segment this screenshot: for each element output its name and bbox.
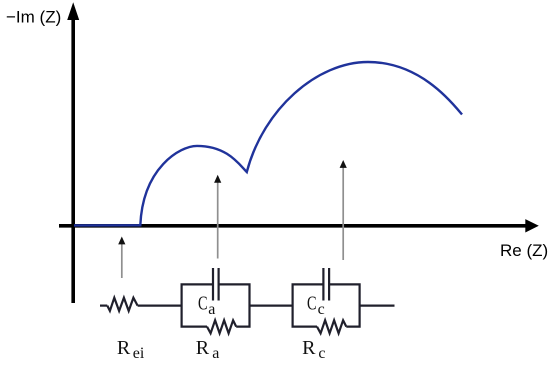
wire out right <box>360 305 395 307</box>
wire lead-in left <box>100 305 107 307</box>
capacitor C_a plates <box>212 268 214 301</box>
Nyquist curve (blue impedance trace) <box>74 62 462 225</box>
capacitor C_c plates <box>322 268 324 301</box>
parallel RC box 1 frame <box>182 284 250 326</box>
y-axis <box>71 17 75 303</box>
resistor R_a <box>207 320 236 333</box>
arrow 2 (to first arc / C_a) stem <box>217 182 219 259</box>
y-axis arrowhead <box>67 2 79 20</box>
svg-text:Re (Z): Re (Z) <box>500 241 548 260</box>
wire box1 to box2 <box>250 305 293 307</box>
arrow 2 head <box>214 175 221 183</box>
svg-text:C: C <box>198 292 208 314</box>
wire R_ei to box1 <box>138 305 182 307</box>
arrow 3 head <box>340 160 347 168</box>
svg-text:R: R <box>302 337 316 359</box>
svg-text:−Im (Z): −Im (Z) <box>6 8 61 27</box>
svg-text:R: R <box>117 337 131 359</box>
parallel RC box 2 frame <box>293 284 360 326</box>
arrow 1 (to R_ei region) stem <box>121 244 123 278</box>
x-axis arrowhead <box>525 219 539 232</box>
resistor R_ei <box>107 298 137 311</box>
svg-text:a: a <box>208 301 215 318</box>
resistor R_c <box>317 320 346 333</box>
svg-text:c: c <box>318 345 325 362</box>
arrow 3 (to second arc / C_c) stem <box>342 167 344 260</box>
svg-text:C: C <box>307 292 317 314</box>
arrow 1 head <box>118 237 125 245</box>
x-axis <box>59 224 527 228</box>
svg-text:c: c <box>318 301 325 318</box>
svg-text:R: R <box>196 337 210 359</box>
svg-text:ei: ei <box>133 345 145 362</box>
svg-text:a: a <box>212 345 219 362</box>
